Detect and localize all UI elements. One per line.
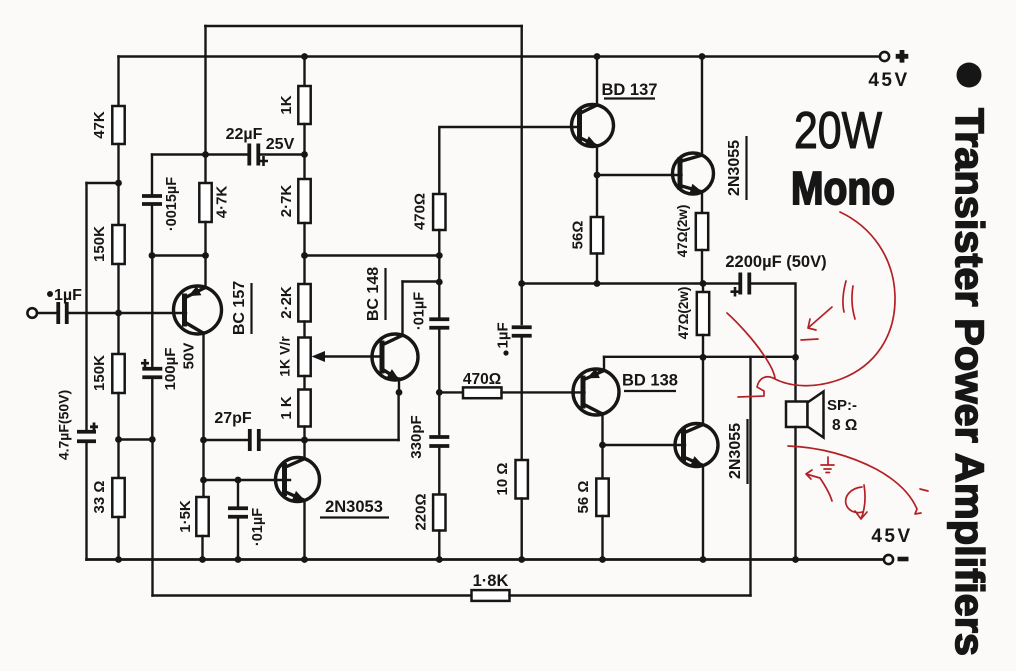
node 1.5K ground <box>199 556 206 563</box>
red scribble diagonal <box>727 313 775 378</box>
svg-text:22µF: 22µF <box>226 126 263 143</box>
wire 47Ru to mid rail <box>701 250 703 284</box>
svg-text:BD 138: BD 138 <box>622 372 678 390</box>
underline BD138 <box>624 390 676 392</box>
wire mid node to .1uF <box>521 284 523 325</box>
capacitor 100uF 50V <box>142 369 162 378</box>
svg-text:1·8K: 1·8K <box>473 572 509 590</box>
wire node to 330pF <box>438 392 440 434</box>
wire 2N3053 emitter <box>303 501 305 560</box>
wire 2N3055u collector <box>701 57 703 155</box>
node 27pF left <box>200 437 207 444</box>
wire 330pF to 220R <box>438 449 440 495</box>
wire 47R lower top <box>702 284 704 293</box>
resistor 47R 2w upper <box>696 213 708 250</box>
resistor 150K lower <box>112 354 124 393</box>
capacitor 4.7uF 50V <box>77 432 96 442</box>
minus sign -45V <box>898 557 909 562</box>
node 33R ground <box>115 556 122 563</box>
node output junction <box>700 354 707 361</box>
wire emitter node to 470R <box>439 391 463 393</box>
svg-text:47Ω(2w): 47Ω(2w) <box>676 287 691 340</box>
wire 27pF node to emitter node <box>305 439 399 441</box>
wire to 1.5K <box>202 440 204 497</box>
svg-text:330pF: 330pF <box>408 415 425 458</box>
node 47K/4.7uF junction <box>115 180 122 187</box>
node 150K/33R junction <box>115 436 122 443</box>
svg-text:4·7K: 4·7K <box>213 186 230 219</box>
capacitor .01uF 2N3053 <box>228 508 248 517</box>
svg-text:47K: 47K <box>91 111 108 139</box>
red scribble small ground <box>821 457 834 473</box>
node 100uF bottom <box>149 436 156 443</box>
node BD137 emitter <box>594 172 601 179</box>
wire BD137 collector <box>596 57 598 106</box>
svg-text:1K V/r: 1K V/r <box>277 336 293 377</box>
wire 2N3053 base <box>204 479 291 481</box>
svg-text:33 Ω: 33 Ω <box>91 481 108 514</box>
wire 100uF to divider <box>119 438 153 440</box>
svg-text:·01µF: ·01µF <box>250 508 266 546</box>
node BC148 collector junction <box>436 279 443 286</box>
node speaker top <box>792 354 799 361</box>
wire BD138 collector up <box>603 357 605 371</box>
capacitor 22uF 25V <box>249 144 258 166</box>
wire branch to 4.7uF <box>87 182 119 184</box>
node 56R bottom rail <box>594 280 601 287</box>
wire 2.2K top <box>303 256 305 285</box>
plus mark 22uF <box>259 156 268 166</box>
wire 100uF top <box>151 256 153 367</box>
wire node2 to .01uF <box>438 282 440 317</box>
wire .01uF bottom <box>237 519 239 560</box>
underline 2N3055 lower <box>746 419 748 484</box>
transistor BC148 NPN <box>372 334 418 380</box>
red scribble double tick <box>843 281 855 319</box>
wire 2N3055l collector <box>702 357 704 424</box>
node speaker ground <box>792 556 799 563</box>
wire BC148 collector to col <box>403 280 440 282</box>
wire +45V rail <box>119 55 880 58</box>
svg-text:50V: 50V <box>180 343 197 370</box>
svg-text:2N3053: 2N3053 <box>325 498 383 516</box>
svg-text:100µF: 100µF <box>162 348 179 391</box>
wire 33R to ground <box>117 517 119 560</box>
wire C1 to BC157 base <box>69 312 187 314</box>
underline 2N3055 upper <box>745 136 747 200</box>
wire 150K to 150K <box>117 264 119 354</box>
node 2N3053 base junction <box>200 477 207 484</box>
resistor 220R <box>433 495 445 531</box>
svg-text:Transister Power Amplifiers: Transister Power Amplifiers <box>947 108 991 656</box>
svg-text:BD 137: BD 137 <box>602 81 658 99</box>
wire 150K to 33R <box>117 393 119 478</box>
label .1uF input <box>47 291 53 297</box>
node 22uF left junction <box>202 151 209 158</box>
wire 2.2K to pot <box>303 322 305 338</box>
capacitor 2200uF 50V <box>740 273 749 295</box>
node 10R ground <box>518 556 525 563</box>
svg-text:150K: 150K <box>91 355 108 391</box>
svg-text:SP:-: SP:- <box>827 397 857 414</box>
pot wiper arrow <box>322 355 382 357</box>
svg-text:27pF: 27pF <box>214 410 252 427</box>
node 470R horiz left <box>436 389 443 396</box>
wire feedback left <box>153 594 472 596</box>
wire feedback riser <box>749 357 751 596</box>
node 22uF right junction <box>301 151 308 158</box>
transistor BC157 PNP <box>174 286 222 334</box>
transistor 2N3055 lower NPN <box>675 424 718 467</box>
capacitor .01uF BC148 <box>429 319 449 328</box>
wire 4.7K top <box>204 26 206 183</box>
node .0015uF junction <box>149 252 156 259</box>
svg-text:45V: 45V <box>868 70 909 91</box>
svg-text:2·2K: 2·2K <box>278 286 295 319</box>
capacitor .0015uF <box>142 196 162 204</box>
svg-text:25V: 25V <box>266 136 295 153</box>
resistor 47K <box>112 106 124 144</box>
svg-text:2N3055: 2N3055 <box>727 423 744 479</box>
wire BD137 to 2N3055 base <box>597 174 682 176</box>
svg-text:·01µF: ·01µF <box>411 292 427 330</box>
node 2N3055u collector rail <box>699 53 706 60</box>
resistor 1K top <box>298 86 310 124</box>
svg-text:1 K: 1 K <box>278 396 295 420</box>
svg-text:10 Ω: 10 Ω <box>494 463 511 496</box>
label .1uF mid <box>495 322 512 355</box>
svg-text:150K: 150K <box>91 226 108 262</box>
underline BC148 <box>384 268 386 320</box>
wire .01uF top <box>237 480 239 506</box>
svg-text:1µF: 1µF <box>54 287 82 304</box>
wire 4.7uF top <box>85 183 87 430</box>
wire 2N3055u emitter <box>701 192 703 213</box>
node input junction <box>115 310 122 317</box>
potentiometer 1K Vr <box>298 338 310 377</box>
wire 47Rl to out node <box>702 335 704 357</box>
resistor 150K upper <box>112 225 124 264</box>
svg-text:Mono: Mono <box>791 162 895 214</box>
node 27pF right <box>301 437 308 444</box>
plus mark 4.7uF <box>90 423 98 432</box>
wire 27pF left seg <box>204 439 250 441</box>
resistor 470R horizontal <box>463 387 502 398</box>
red scribble arrow upper <box>801 307 832 340</box>
underline 2N3053 <box>320 516 389 518</box>
wire 22uF right <box>259 153 305 155</box>
wire 56R to mid rail <box>596 254 598 284</box>
wire .0015uF bottom <box>151 206 153 256</box>
node BD138 emitter junction <box>599 442 606 449</box>
wire 100uF bottom <box>151 380 153 440</box>
transistor 2N3055 upper NPN <box>673 153 714 194</box>
node 2N3055l ground <box>700 556 707 563</box>
wire 27pF right seg <box>259 439 304 441</box>
wire BD138 to 2N3055l base <box>603 444 686 446</box>
wire feedback right <box>510 594 751 596</box>
wire BC148 emitter down <box>398 379 400 393</box>
terminal -45V <box>884 555 893 564</box>
svg-text:20W: 20W <box>794 102 882 160</box>
wire 220R to ground <box>438 531 440 560</box>
resistor 1.5K <box>196 497 208 536</box>
wire .1uF to 10R <box>521 339 523 461</box>
node 1K top rail <box>301 53 308 60</box>
wire 4.7uF bottom <box>85 443 87 560</box>
resistor 47R 2w lower <box>697 292 709 335</box>
wire 1K top <box>303 57 305 87</box>
wire bias node to 470R col <box>305 254 440 256</box>
wire ground rail <box>87 558 884 561</box>
wire BC157 emitter down <box>202 333 204 441</box>
resistor 56R lower <box>596 479 608 517</box>
node 220R ground <box>436 556 443 563</box>
red scribble side dash <box>920 489 928 491</box>
transistor 2N3053 NPN <box>276 458 320 502</box>
resistor 33R <box>112 478 124 517</box>
wire .01uF to emitter node <box>438 330 440 392</box>
wire BD137 emitter <box>596 146 598 217</box>
plus sign +45V <box>896 50 909 63</box>
red scribble big arc <box>738 212 895 397</box>
resistor 4.7K <box>199 183 211 222</box>
capacitor 27pF <box>250 429 259 451</box>
wire 4.7K bottom <box>204 222 206 256</box>
svg-text:BC 148: BC 148 <box>365 267 382 321</box>
capacitor C1 .1uF input <box>58 302 67 324</box>
svg-text:1µF: 1µF <box>495 322 512 348</box>
wire 1.5K to ground <box>201 536 203 560</box>
svg-text:2·7K: 2·7K <box>278 185 295 218</box>
node .01uF ground <box>235 556 242 563</box>
wire BC148 collector up <box>401 282 403 336</box>
resistor 10R <box>516 460 528 499</box>
svg-text:1·5K: 1·5K <box>177 500 194 533</box>
resistor 56R upper <box>591 217 603 254</box>
terminal input <box>27 308 37 318</box>
speaker SP 8R <box>786 392 824 438</box>
resistor 2.2K <box>298 284 310 322</box>
transistor BD138 PNP <box>573 369 619 415</box>
underline BC157 <box>250 283 252 334</box>
wire 47K to 150K <box>117 144 119 225</box>
svg-text:47Ω(2w): 47Ω(2w) <box>675 205 690 258</box>
wire 22uF left <box>152 153 249 155</box>
resistor 470R vertical <box>433 194 445 230</box>
terminal +45V <box>880 52 889 61</box>
svg-text:470Ω: 470Ω <box>463 371 501 388</box>
transistor BD137 NPN <box>572 105 614 147</box>
wire mid column top <box>521 26 523 284</box>
wire BC157 collector top <box>204 256 206 288</box>
svg-text:1K: 1K <box>278 95 295 114</box>
svg-text:220Ω: 220Ω <box>412 493 429 530</box>
red scribble left arrow <box>806 470 832 501</box>
capacitor .1uF mid <box>512 327 532 336</box>
red scribble lower curve <box>788 446 921 514</box>
red scribble hook arrow <box>846 485 867 519</box>
svg-text:45V: 45V <box>871 526 912 547</box>
svg-text:4.7µF(50V): 4.7µF(50V) <box>56 390 72 460</box>
wire BD138 collector run <box>604 356 796 358</box>
wire mid rail to 2200uF <box>522 282 738 284</box>
wire 2200uF to speaker <box>749 284 795 358</box>
svg-text:BC 157: BC 157 <box>231 281 248 335</box>
node .01uF top <box>235 477 242 484</box>
wire 470R to node <box>438 230 440 256</box>
wire 470R to BD138 base <box>502 391 585 393</box>
wire .0015uF top <box>151 155 153 195</box>
plus mark 100uF <box>141 359 149 368</box>
capacitor 330pF <box>429 437 449 446</box>
svg-text:2200µF (50V): 2200µF (50V) <box>725 253 826 271</box>
wire feedback drop <box>151 440 153 596</box>
node 470R bottom <box>436 252 443 259</box>
wire top loop <box>205 25 522 27</box>
underline BD137 <box>604 97 655 99</box>
resistor 1K lower <box>298 390 310 427</box>
node 4.7K bottom <box>202 252 209 259</box>
svg-text:56 Ω: 56 Ω <box>575 481 592 514</box>
wire 56Rl to ground <box>601 516 603 560</box>
wire pot to 1K <box>303 376 305 390</box>
svg-text:8 Ω: 8 Ω <box>832 417 857 434</box>
node 56Rl ground <box>599 556 606 563</box>
node 2.7K bottom <box>301 252 308 259</box>
resistor 2.7K <box>298 179 310 223</box>
plus mark 2200uF <box>731 287 740 297</box>
svg-text:56Ω: 56Ω <box>569 221 586 250</box>
node BD137 collector rail <box>594 53 601 60</box>
wire node to 4.7K bottom <box>152 254 206 256</box>
wire speaker top <box>794 357 796 401</box>
svg-text:470Ω: 470Ω <box>411 193 428 230</box>
svg-text:2N3055: 2N3055 <box>726 140 743 196</box>
node 2N3053 ground <box>301 556 308 563</box>
node 47R junction rail <box>700 280 707 287</box>
node BC148 emitter junction <box>396 389 403 396</box>
wire node to node2 <box>438 256 440 283</box>
wire input to C1 <box>37 312 57 314</box>
wire 47K top <box>117 57 119 107</box>
wire BD137 base run <box>439 127 579 194</box>
svg-text:·0015µF: ·0015µF <box>164 177 180 231</box>
wire 2.7K to node <box>303 223 305 256</box>
wire 2N3055l emitter <box>702 466 704 560</box>
wire 1K to 2.7K <box>303 124 305 179</box>
wire 1K to 2N3053 <box>303 427 305 459</box>
sidebar bullet <box>957 63 982 88</box>
wire emitter node drop <box>397 392 399 440</box>
wire BD138 emitter down <box>601 414 603 479</box>
node 2N3053 collector <box>301 437 308 444</box>
resistor 1.8K <box>472 590 510 601</box>
wire 10R to ground <box>521 499 523 560</box>
node mid rail left <box>518 280 525 287</box>
wire speaker bottom <box>794 427 796 560</box>
